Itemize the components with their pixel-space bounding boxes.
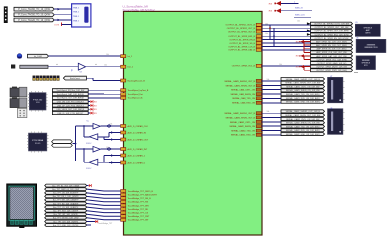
svg-text:TouchSpiral_Dat: TouchSpiral_Dat bbox=[128, 93, 144, 96]
svg-text:FTDI 232: FTDI 232 bbox=[33, 99, 43, 101]
svg-text:SERIAL_CAM1_GND_ON_10R_BWQ: SERIAL_CAM1_GND_ON_10R_BWQ bbox=[286, 101, 321, 104]
svg-text:OUTPUT_BL_SPKR_DAT_B: OUTPUT_BL_SPKR_DAT_B bbox=[228, 49, 255, 52]
svg-text:10k: 10k bbox=[267, 79, 270, 81]
svg-text:TouchBridge_TFT_RS: TouchBridge_TFT_RS bbox=[128, 201, 149, 204]
svg-text:TouchBridge_TFT: TouchBridge_TFT bbox=[98, 223, 113, 225]
svg-text:OUTPUT_BL_SPKR2_OUT1_10R_BW: OUTPUT_BL_SPKR2_OUT1_10R_BW bbox=[314, 24, 349, 26]
svg-text:Bus_TFT_RST_10R_QKWTF: Bus_TFT_RST_10R_QKWTF bbox=[53, 211, 79, 213]
svg-text:USB_VBUS_DET_10R_BWQK: USB_VBUS_DET_10R_BWQK bbox=[56, 109, 84, 111]
svg-text:USB_DP_10R_FTDI_BWQKT: USB_DP_10R_FTDI_BWQKT bbox=[57, 105, 85, 107]
svg-text:TouchSpiral_Clk: TouchSpiral_Clk bbox=[128, 97, 144, 100]
svg-text:AMP_SPKR_DAT_10R_OUT_BW: AMP_SPKR_DAT_10R_OUT_BW bbox=[316, 55, 346, 58]
svg-text:OUTPUT_BL_SPKR_EN_B: OUTPUT_BL_SPKR_EN_B bbox=[229, 39, 255, 41]
svg-text:3V3: 3V3 bbox=[296, 56, 299, 58]
svg-text:TouchBridge_TFT_CS: TouchBridge_TFT_CS bbox=[128, 211, 149, 214]
svg-text:TouchSpiral_DAT_10R_BWQK: TouchSpiral_DAT_10R_BWQK bbox=[57, 93, 85, 96]
svg-text:10k: 10k bbox=[265, 33, 268, 35]
svg-text:AMP_SPKR_IN_10R_OUT_BWQ: AMP_SPKR_IN_10R_OUT_BWQ bbox=[316, 48, 346, 51]
svg-text:10k: 10k bbox=[106, 147, 109, 149]
svg-text:TMS J: TMS J bbox=[73, 12, 79, 14]
svg-text:BackCount: BackCount bbox=[70, 77, 80, 80]
svg-text:SERIAL_CAM1_SHDN1_OUT_10R_B: SERIAL_CAM1_SHDN1_OUT_10R_B bbox=[286, 78, 321, 81]
svg-text:10k: 10k bbox=[267, 111, 270, 113]
svg-text:AUX_D_CSPAR_0: AUX_D_CSPAR_0 bbox=[128, 161, 146, 164]
svg-text:SERIAL_CAM2_SHDN_OUT_B: SERIAL_CAM2_SHDN_OUT_B bbox=[226, 116, 256, 119]
svg-text:SERIAL_CAM1_SHDN1_OUT_B: SERIAL_CAM1_SHDN1_OUT_B bbox=[224, 80, 255, 83]
svg-text:SN65V: SN65V bbox=[86, 143, 92, 145]
svg-text:SERIAL_CAM2_RXD_ON: SERIAL_CAM2_RXD_ON bbox=[231, 134, 256, 137]
svg-text:SERIAL_CAM2_TXD_ON: SERIAL_CAM2_TXD_ON bbox=[231, 129, 255, 132]
svg-text:10k: 10k bbox=[106, 54, 109, 56]
svg-text:3V3: 3V3 bbox=[296, 66, 299, 68]
svg-text:SERIAL_CAM1_TXD_ON_10R_BWQ: SERIAL_CAM1_TXD_ON_10R_BWQ bbox=[286, 93, 320, 96]
svg-text:SERIAL_CAM2_SHDN_OUT_10R_BW: SERIAL_CAM2_SHDN_OUT_10R_BW bbox=[285, 114, 320, 117]
svg-text:OUTPUT_BL_SPKR_OUT_10R_BHW: OUTPUT_BL_SPKR_OUT_10R_BHW bbox=[314, 31, 348, 33]
svg-text:SERIAL_CAM1_RXD_ON_10R_BWQ: SERIAL_CAM1_RXD_ON_10R_BWQ bbox=[286, 97, 320, 100]
svg-text:OUTPUT_BL_SPKR_CLK_B: OUTPUT_BL_SPKR_CLK_B bbox=[228, 46, 255, 48]
svg-text:10k: 10k bbox=[265, 24, 268, 26]
svg-text:TouchSpiral_IrqTest_B: TouchSpiral_IrqTest_B bbox=[128, 89, 149, 92]
svg-text:SERIAL_CAM2_SHDN1_OUT_B: SERIAL_CAM2_SHDN1_OUT_B bbox=[224, 112, 255, 115]
svg-text:SERIAL_CAM2_CNTL_ON_10R_BW: SERIAL_CAM2_CNTL_ON_10R_BW bbox=[286, 118, 319, 121]
svg-text:10k: 10k bbox=[297, 21, 300, 23]
svg-text:3 V3: 3 V3 bbox=[54, 25, 59, 27]
svg-text:AUX_D_CSPAR_INT: AUX_D_CSPAR_INT bbox=[128, 148, 148, 151]
svg-text:SWD_IO: SWD_IO bbox=[295, 7, 303, 9]
svg-text:8W78: 8W78 bbox=[365, 33, 370, 35]
svg-text:SERIAL_CAM2_GND_ON_10R_BWQ: SERIAL_CAM2_GND_ON_10R_BWQ bbox=[286, 133, 321, 136]
svg-text:Bus_TFT_CS_10R_QKBWTF: Bus_TFT_CS_10R_QKBWTF bbox=[53, 207, 79, 209]
svg-text:SymcqTable_Mf.SchDoc: SymcqTable_Mf.SchDoc bbox=[123, 8, 156, 12]
svg-text:SWD_CLK: SWD_CLK bbox=[295, 15, 305, 17]
svg-text:OUTPUT_SPKR_GAIN_10R_BQ: OUTPUT_SPKR_GAIN_10R_BQ bbox=[317, 62, 347, 65]
svg-text:SERIAL_CAM_SHDN_ON: SERIAL_CAM_SHDN_ON bbox=[231, 93, 256, 96]
svg-text:P_Conn_TAG50_TO_10_QKW: P_Conn_TAG50_TO_10_QKW bbox=[18, 14, 51, 17]
svg-text:TouchBridge_TFT_INT: TouchBridge_TFT_INT bbox=[128, 219, 150, 222]
svg-text:OUTPUT_BL_SPKR2_OUT_10R_BW: OUTPUT_BL_SPKR2_OUT_10R_BW bbox=[315, 27, 349, 29]
svg-text:USB_DM_10R_FTDI_BWQKT: USB_DM_10R_FTDI_BWQKT bbox=[57, 102, 85, 104]
svg-text:SERIAL_CAM2_RXD_ON_10R_BWQ: SERIAL_CAM2_RXD_ON_10R_BWQ bbox=[286, 129, 320, 132]
svg-text:Bus_TFT_VSYNC_10R_QKW: Bus_TFT_VSYNC_10R_QKW bbox=[53, 218, 79, 220]
svg-text:AMP_SPKR_CLK_10R_OUT_BW: AMP_SPKR_CLK_10R_OUT_BW bbox=[316, 51, 346, 54]
svg-text:OUTPUT_BL_SPKR_EN1_10R_BQW: OUTPUT_BL_SPKR_EN1_10R_BQW bbox=[314, 34, 348, 36]
svg-text:SERIAL_CAM_RXD_ON: SERIAL_CAM_RXD_ON bbox=[232, 102, 255, 105]
svg-text:OUTPUT_SPKR_MUTE_10R_BW: OUTPUT_SPKR_MUTE_10R_BW bbox=[316, 67, 347, 69]
svg-text:OUTPUT_BL_SPKR_EN1_B: OUTPUT_BL_SPKR_EN1_B bbox=[228, 36, 255, 38]
svg-text:OUTPUT_SPKR_VOL_10R_BTW: OUTPUT_SPKR_VOL_10R_BTW bbox=[316, 59, 346, 61]
svg-text:AMP_SPKR_SD_10R_OUT_BWQ: AMP_SPKR_SD_10R_OUT_BWQ bbox=[316, 40, 347, 43]
svg-text:P_Conn_TAG50_TO_10_QKW: P_Conn_TAG50_TO_10_QKW bbox=[18, 8, 51, 11]
svg-text:Int_100R: Int_100R bbox=[34, 55, 43, 58]
svg-text:TouchSpiral_CLK_10R_BWQK: TouchSpiral_CLK_10R_BWQK bbox=[57, 98, 85, 100]
svg-text:BackLightCount_B: BackLightCount_B bbox=[128, 79, 146, 82]
svg-text:SN65V: SN65V bbox=[86, 168, 92, 170]
svg-text:TouchBridge_TFT_DB_B: TouchBridge_TFT_DB_B bbox=[128, 197, 152, 200]
svg-text:OUTPUT_BL_SPKR_SD_B: OUTPUT_BL_SPKR_SD_B bbox=[229, 43, 255, 45]
svg-text:TouchBridge_TFT_WR: TouchBridge_TFT_WR bbox=[128, 204, 150, 207]
svg-text:OUTPUT_BL_SPKR_EN_10R_BTKW: OUTPUT_BL_SPKR_EN_10R_BTKW bbox=[315, 38, 349, 40]
svg-text:74a: 74a bbox=[86, 121, 89, 123]
svg-text:SERIAL_CAM1_SHDN_OUT_B: SERIAL_CAM1_SHDN_OUT_B bbox=[226, 84, 256, 87]
svg-text:8T8: 8T8 bbox=[364, 65, 367, 67]
svg-text:OUTPUT_BL_SPKR2_OUT1_B: OUTPUT_BL_SPKR2_OUT1_B bbox=[226, 25, 256, 27]
svg-text:Bus_TFT_WR_10R_QKBWTF: Bus_TFT_WR_10R_QKBWTF bbox=[53, 200, 79, 202]
svg-text:SERIAL_CAM_TXD_ON: SERIAL_CAM_TXD_ON bbox=[232, 97, 255, 100]
svg-text:TMS J: TMS J bbox=[73, 20, 79, 22]
svg-text:Bus_TFT_RD_10R_QKBWTF: Bus_TFT_RD_10R_QKBWTF bbox=[53, 203, 79, 205]
svg-text:TouchBridge_TFT_RD: TouchBridge_TFT_RD bbox=[128, 208, 149, 211]
svg-text:AUX_D_CSPAR_CLK: AUX_D_CSPAR_CLK bbox=[128, 125, 149, 128]
svg-text:U6: U6 bbox=[356, 37, 358, 39]
svg-text:SERIAL_CAM_CNTL_ON: SERIAL_CAM_CNTL_ON bbox=[231, 88, 256, 91]
svg-text:10k: 10k bbox=[279, 64, 282, 66]
svg-text:OUTPUT_BL_SPKR2_OUT_B: OUTPUT_BL_SPKR2_OUT_B bbox=[227, 28, 256, 30]
svg-text:AMP_SPKR_EN_10R_OUT_BWQ: AMP_SPKR_EN_10R_OUT_BWQ bbox=[316, 44, 347, 47]
svg-text:3V3: 3V3 bbox=[94, 113, 97, 115]
svg-text:TouchSpiral_IRQTest_10R_BW: TouchSpiral_IRQTest_10R_BW bbox=[56, 89, 84, 92]
svg-text:SERIAL_CAM1_SHDN_OUT_10R_BW: SERIAL_CAM1_SHDN_OUT_10R_BW bbox=[285, 82, 320, 85]
svg-text:TouchBridge_TFT_DB15_B: TouchBridge_TFT_DB15_B bbox=[128, 190, 154, 193]
svg-text:Bus_TFT_3V3_10R_QWTFK: Bus_TFT_3V3_10R_QWTFK bbox=[53, 221, 78, 223]
svg-text:AUX_D_CSPAR_1: AUX_D_CSPAR_1 bbox=[128, 154, 146, 157]
svg-text:SERIAL_CAM2_TXD_ON_10R_BWQ: SERIAL_CAM2_TXD_ON_10R_BWQ bbox=[286, 125, 320, 128]
svg-text:TMS J: TMS J bbox=[73, 7, 79, 9]
svg-text:SERIAL_CAM1_SHDN_ON_10R_BW: SERIAL_CAM1_SHDN_ON_10R_BW bbox=[286, 89, 320, 92]
svg-text:U7: U7 bbox=[330, 76, 332, 78]
svg-text:TouchBridge_TFT_RST: TouchBridge_TFT_RST bbox=[128, 215, 151, 218]
svg-text:SERIAL_CAM2_CNTL_ON: SERIAL_CAM2_CNTL_ON bbox=[230, 121, 256, 124]
svg-text:OUTPUT_BL_SPKR_OUT_B: OUTPUT_BL_SPKR_OUT_B bbox=[228, 31, 256, 33]
svg-text:FTDI 9BBA: FTDI 9BBA bbox=[32, 139, 44, 142]
svg-text:OUTPUT_SPKR_VOL_B: OUTPUT_SPKR_VOL_B bbox=[232, 66, 256, 68]
svg-text:Bus_TFT_RS_1_10R_QKWTF: Bus_TFT_RS_1_10R_QKWTF bbox=[53, 196, 80, 198]
svg-text:U8: U8 bbox=[330, 108, 332, 110]
svg-text:Bus_TFT_DB[15..0]_10R_QKW: Bus_TFT_DB[15..0]_10R_QKW bbox=[52, 189, 79, 191]
svg-text:Bus_TFT_BL_3V3_10R_QKBW: Bus_TFT_BL_3V3_10R_QKBW bbox=[52, 185, 79, 187]
svg-text:Bus_TFT_INT_10R_QKWTF: Bus_TFT_INT_10R_QKWTF bbox=[54, 214, 79, 216]
svg-text:AUX_D_CSPAR_OUT: AUX_D_CSPAR_OUT bbox=[128, 138, 149, 141]
svg-text:Bus_TFT_DB_10R_BQKWTF: Bus_TFT_DB_10R_BQKWTF bbox=[53, 193, 79, 195]
svg-text:SERIAL_CAM1_CNTL_ON_10R_BW: SERIAL_CAM1_CNTL_ON_10R_BW bbox=[286, 85, 319, 88]
svg-text:3V3: 3V3 bbox=[296, 41, 299, 43]
svg-text:AUX_D_CSPAR_IN: AUX_D_CSPAR_IN bbox=[128, 131, 147, 134]
svg-text:SERIAL_CAM2_SHDN_ON_10R_BW: SERIAL_CAM2_SHDN_ON_10R_BW bbox=[286, 122, 320, 125]
svg-text:Det_1: Det_1 bbox=[128, 66, 134, 69]
svg-text:RS485: RS485 bbox=[35, 143, 41, 145]
svg-text:8888888 8T8 B: 8888888 8T8 B bbox=[365, 47, 379, 49]
svg-text:TMS J: TMS J bbox=[73, 16, 79, 18]
svg-text:U5: U5 bbox=[355, 22, 357, 24]
svg-text:SERIAL_CAM2_SHDN1_OUT_10R_B: SERIAL_CAM2_SHDN1_OUT_10R_B bbox=[286, 110, 321, 113]
svg-text:3V3: 3V3 bbox=[94, 109, 97, 111]
svg-text:P_Conn_TAG20_TO_10_QKW: P_Conn_TAG20_TO_10_QKW bbox=[18, 19, 51, 22]
svg-text:OUTPUT_SPKR_PWR_10R_BHQ: OUTPUT_SPKR_PWR_10R_BHQ bbox=[316, 70, 347, 72]
svg-text:3V3: 3V3 bbox=[94, 105, 97, 107]
svg-text:TouchBridge_TFT_BACKLIGHT: TouchBridge_TFT_BACKLIGHT bbox=[128, 193, 158, 196]
svg-text:SERIAL_CAM2_SHDN_ON: SERIAL_CAM2_SHDN_ON bbox=[229, 125, 255, 128]
svg-text:3V3: 3V3 bbox=[94, 102, 97, 104]
svg-text:10k: 10k bbox=[104, 65, 107, 67]
svg-text:USB_ID_10R_FTDI_BWQKT: USB_ID_10R_FTDI_BWQKT bbox=[57, 113, 84, 115]
svg-text:Bus_TFT_GND_10R_QWTFK: Bus_TFT_GND_10R_QWTFK bbox=[53, 225, 79, 227]
svg-text:10k: 10k bbox=[110, 124, 113, 126]
